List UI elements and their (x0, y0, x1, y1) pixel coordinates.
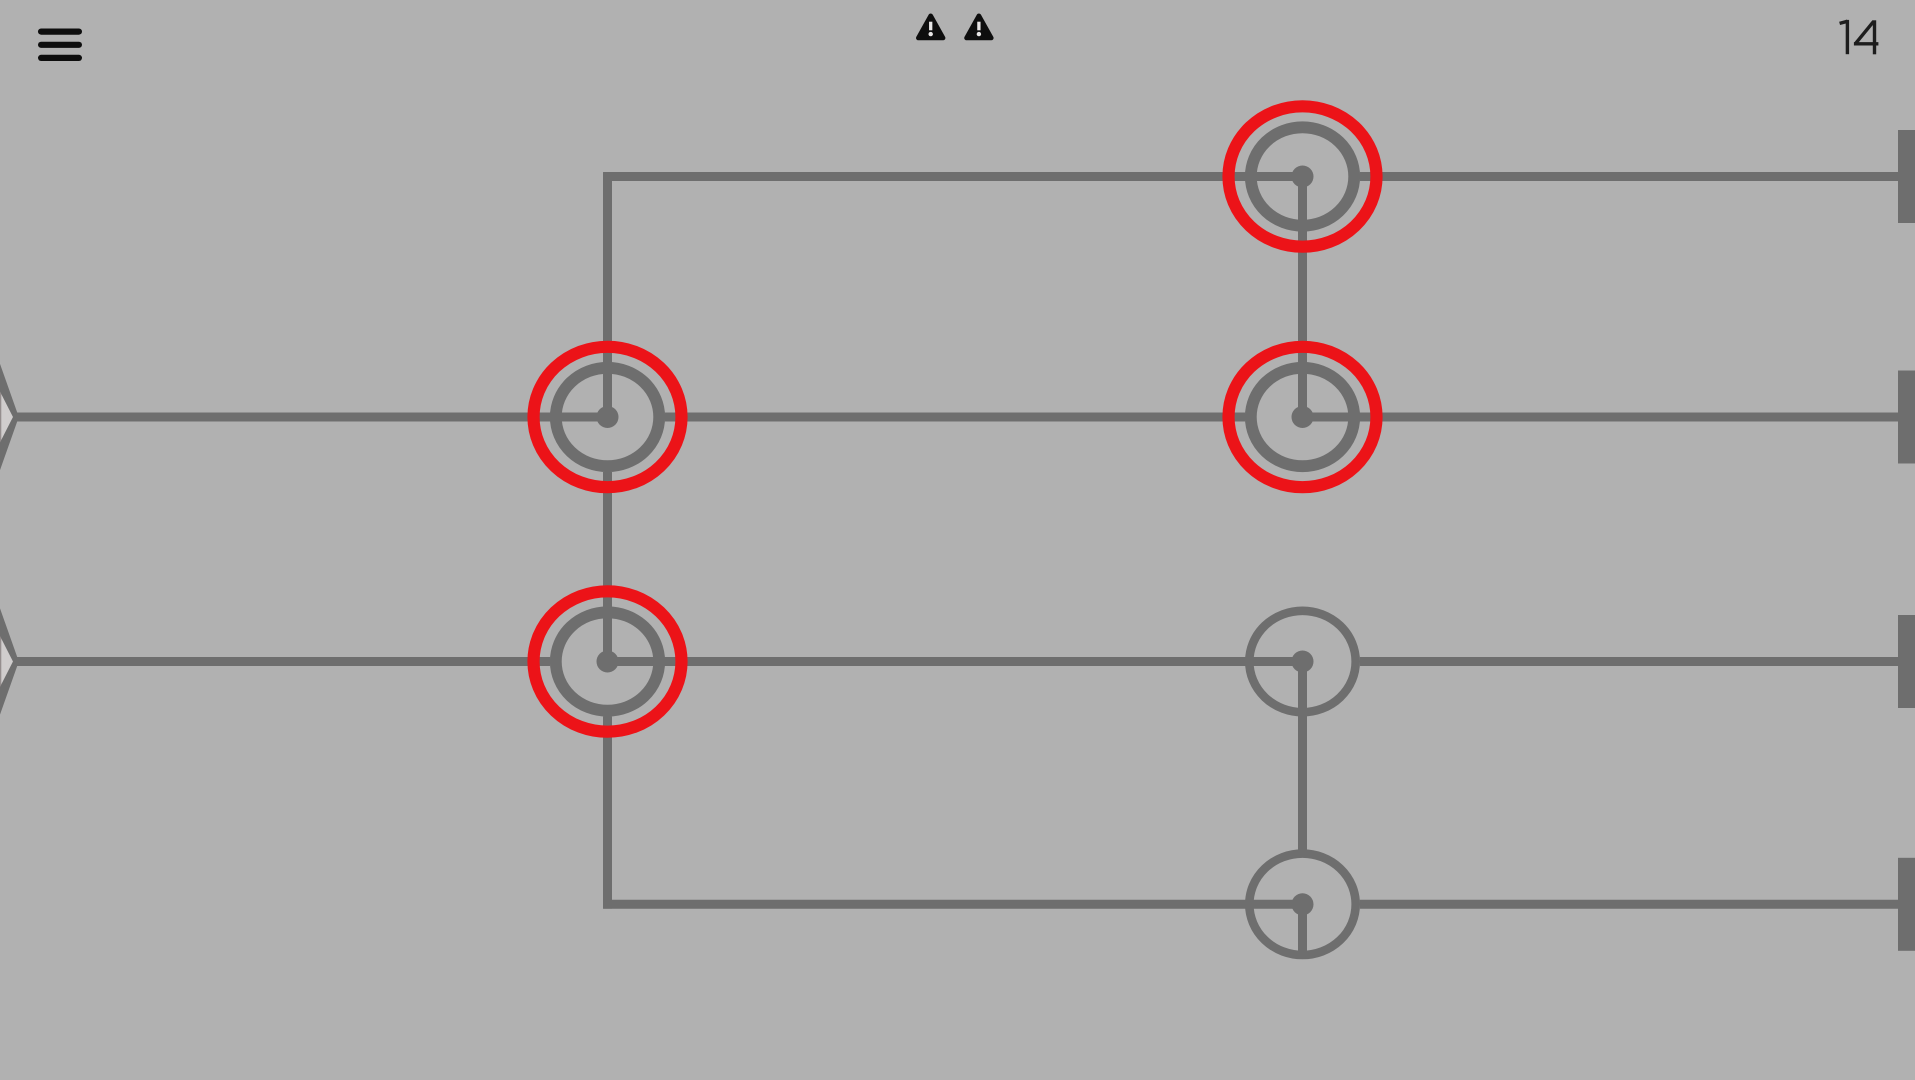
wire column2 top segment (1298, 177, 1307, 418)
node D dot (1292, 406, 1314, 428)
wire row3 right segment (1360, 657, 1898, 666)
node E dot (1292, 651, 1314, 673)
node B ring (556, 612, 659, 710)
wire column2 bottom segment (1298, 662, 1307, 851)
menu icon (hamburger) (38, 29, 82, 62)
warning icon 1 (918, 16, 943, 38)
right terminal block row 3 (1898, 615, 1915, 708)
node A red ring (534, 347, 682, 487)
left connector hexagon row 3 (edge line) (0, 635, 1, 689)
left connector hexagon row 2 (light fill) (0, 390, 13, 445)
warning icon 2 (967, 16, 992, 38)
node A dot (597, 406, 619, 428)
node E ring (1249, 611, 1355, 712)
wire row2 left segment (17, 413, 608, 422)
wire row1 right segment (1360, 172, 1898, 181)
right terminal block row 2 (1898, 371, 1915, 464)
left connector hexagon row 2 (dark band) (0, 361, 19, 473)
left connector hexagon row 3 (light fill) (0, 634, 13, 689)
right terminal block row 1 (1898, 130, 1915, 223)
wire row2 middle segment (665, 413, 1245, 422)
left connector hexagon row 3 (dark band) (0, 606, 19, 718)
node C red ring (1229, 106, 1377, 246)
node F ring (1249, 854, 1355, 955)
wire row3 left segment (17, 657, 550, 666)
wire stub node F bottom (1298, 904, 1307, 956)
wire row3 middle segment (608, 657, 1303, 666)
node B red ring (534, 591, 682, 731)
node B dot (597, 651, 619, 673)
level number 14 (1840, 20, 1879, 54)
right terminal block row 4 (1898, 858, 1915, 951)
wire row4 right segment (1360, 900, 1898, 909)
node D red ring (1229, 347, 1377, 487)
node F dot (1292, 893, 1314, 915)
node A ring (556, 368, 659, 466)
wire column1 top segment (603, 172, 612, 417)
left connector hexagon row 2 (edge line) (0, 390, 1, 444)
wire column1 middle segment (603, 472, 612, 662)
wire column1 bottom segment (603, 717, 612, 909)
node D ring (1251, 368, 1354, 466)
wire row1 left segment (603, 172, 1302, 181)
node C dot (1292, 166, 1314, 188)
node C ring (1251, 127, 1354, 225)
wire row2 right segment (1303, 413, 1899, 422)
wire row4 left segment (603, 900, 1302, 909)
